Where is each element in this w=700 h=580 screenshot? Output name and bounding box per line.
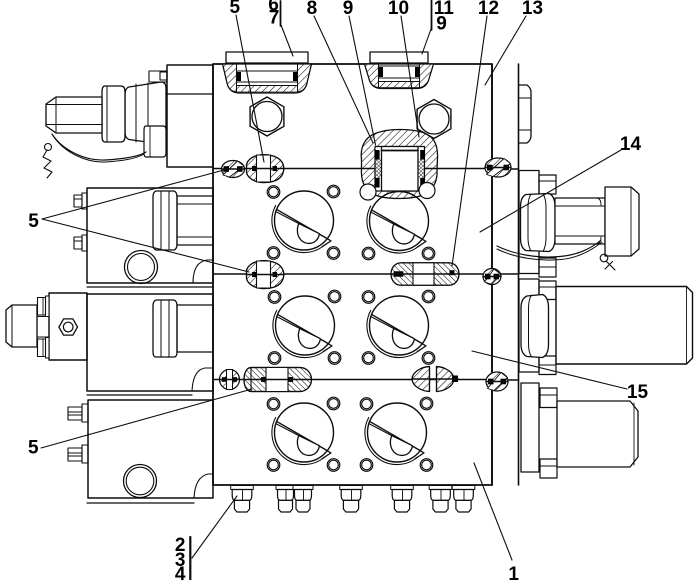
svg-text:12: 12 (478, 0, 499, 19)
svg-text:13: 13 (522, 0, 543, 19)
svg-text:10: 10 (388, 0, 409, 19)
svg-text:15: 15 (627, 382, 649, 403)
svg-text:9: 9 (436, 14, 447, 35)
svg-text:5: 5 (230, 0, 241, 18)
svg-text:7: 7 (269, 8, 280, 29)
svg-text:8: 8 (307, 0, 318, 19)
svg-text:4: 4 (175, 564, 186, 580)
svg-text:14: 14 (620, 134, 642, 155)
svg-text:5: 5 (28, 438, 39, 459)
svg-text:5: 5 (28, 211, 39, 232)
svg-text:1: 1 (508, 564, 519, 580)
svg-text:9: 9 (343, 0, 354, 19)
